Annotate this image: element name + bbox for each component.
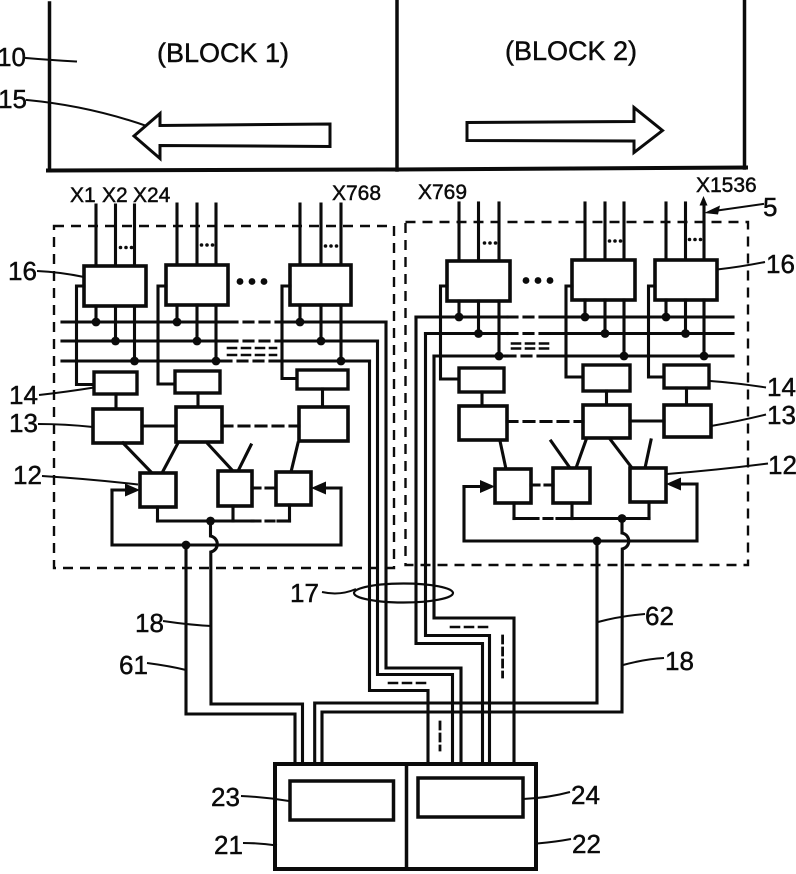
divider between driver 21 and 22: [405, 764, 409, 869]
arrowhead into 12c: [311, 482, 326, 495]
shift register stage 12a (left): [140, 473, 176, 507]
wire 18 from right carry line down (with hop): [322, 519, 629, 765]
label 16 right leader: [717, 262, 765, 270]
shift register stage 12f (right): [630, 468, 666, 502]
carry line under 12 row (right): [514, 517, 530, 520]
level shifter block 13e (right): [583, 405, 630, 438]
dashed link 13b-13c: [222, 424, 299, 427]
svg-text:X1: X1: [70, 184, 96, 207]
input wires into left driver U16c (X768): [298, 204, 301, 265]
input wires into right driver U16e: [583, 203, 586, 260]
shift register stage 12c (left): [276, 472, 311, 505]
feedback loop (left half): [112, 488, 341, 545]
bus bundle wire left-2: [378, 341, 453, 764]
sampling latch block 16 (right, second): [572, 260, 635, 300]
display panel 10 outline (left edge): [48, 3, 52, 170]
ellipsis dots on inputs of U16c: [324, 244, 339, 248]
dashed block boundary 5 (left half): [54, 226, 394, 568]
connector block 23 inside 21: [290, 781, 394, 820]
bus bundle wire right-3: [434, 356, 514, 764]
wire 61 from left loop down: [186, 545, 295, 764]
stub 14b-13b: [196, 393, 199, 407]
label 12 right leader: [667, 464, 768, 475]
display panel bottom edge: [48, 168, 746, 171]
svg-text:14: 14: [767, 372, 796, 402]
stub 14a-13a: [114, 394, 117, 409]
wire 18 from left carry line down (with hop): [211, 521, 303, 764]
shift register stage 12b (left): [218, 471, 252, 506]
wire into 12f with arrow: [680, 482, 697, 485]
bus line 3 (left half): [62, 359, 222, 362]
svg-text:12: 12: [13, 460, 42, 490]
svg-text:61: 61: [119, 650, 148, 680]
svg-text:24: 24: [571, 780, 600, 810]
bus line 1 (right half): [416, 315, 508, 318]
bus junction dots (left half): [92, 318, 346, 366]
bottom pins of 12d,12e,12f: [512, 503, 515, 519]
input wires X769.. into right driver U16d: [457, 203, 460, 261]
shift register stage 12d (right): [495, 469, 531, 503]
sampling latch block 16 (right, third): [655, 260, 717, 300]
bus line 2 (left half): [62, 339, 228, 342]
svg-text:X24: X24: [133, 184, 171, 207]
extra bus dashes (left half): [228, 347, 276, 350]
junction dot on carry line (left): [206, 517, 215, 526]
extra bus dashes (right half): [512, 342, 554, 345]
level shifter block 13a (left): [93, 409, 142, 443]
bus bundle wire right-1: [416, 317, 483, 764]
latch block 14b (left): [175, 371, 220, 393]
junction dot on loop line (left): [182, 541, 191, 550]
svg-text:22: 22: [572, 829, 601, 859]
ellipsis dots on inputs of U16f: [688, 238, 703, 242]
input wires into right driver U16f (X1536): [664, 203, 667, 260]
svg-text:10: 10: [0, 42, 26, 72]
wire into 12c with arrow: [325, 486, 341, 489]
data driver box 21: [275, 764, 536, 869]
bottom pins of 12a,12b,12c: [156, 507, 159, 521]
sampling latch block 16 (right, first): [447, 261, 510, 301]
label 24 leader: [523, 792, 570, 799]
label 61 leader: [147, 663, 186, 670]
label 14 left leader: [39, 388, 94, 396]
latch block 14f (right): [664, 365, 709, 388]
side wire from U16d to latch 14d: [441, 286, 460, 379]
connector block 24 inside 22: [418, 778, 523, 817]
ellipsis dots on inputs of U16d: [483, 241, 498, 245]
ellipsis dots on inputs of U16e: [608, 239, 623, 243]
label 22 leader: [537, 839, 571, 844]
svg-text:X1536: X1536: [696, 174, 757, 197]
label 13 right leader: [711, 415, 766, 427]
group separator dots between left 16 blocks: [237, 278, 268, 285]
input wires into left driver U16b: [175, 204, 178, 265]
bus bundle wire left-3: [370, 361, 429, 764]
input wires X1,X2,X24 into left driver U16a: [94, 205, 97, 266]
side wire from U16b to latch 14b: [158, 286, 175, 384]
label 17 leader: [322, 589, 356, 593]
stub 14d-13d: [480, 392, 483, 406]
latch block 14e (right): [583, 365, 630, 391]
svg-text:17: 17: [290, 578, 319, 608]
wire 62 from right loop down: [315, 541, 597, 764]
slant wires 13 to 12 (right half): [500, 441, 506, 469]
bus line 3 (right half): [434, 354, 506, 357]
label 13 left leader: [38, 424, 93, 427]
cable tie ellipse 17: [354, 584, 453, 603]
group separator dots between right 16 blocks: [523, 277, 554, 284]
dashed continuation marks in bundle channel: [389, 682, 428, 685]
shift register stage 12e (right): [553, 468, 590, 503]
leader for label 5: [714, 204, 763, 211]
slant wires 13 to 12 (left half): [123, 443, 152, 473]
arrowhead into 12d: [480, 480, 495, 493]
svg-text:(BLOCK 2): (BLOCK 2): [505, 36, 637, 66]
level shifter block 13c (left): [299, 407, 348, 441]
scan-direction arrow in BLOCK 1 (pointing left): [134, 114, 330, 159]
label 23 leader: [241, 796, 289, 801]
junction dot on carry line (right): [618, 514, 627, 523]
svg-text:16: 16: [766, 249, 795, 279]
svg-text:13: 13: [9, 408, 38, 438]
ellipsis dots on inputs of U16b: [200, 243, 215, 247]
svg-text:15: 15: [0, 84, 27, 114]
svg-text:14: 14: [9, 380, 38, 410]
bus bundle wire left-1: [386, 322, 461, 764]
label 14 right leader: [710, 381, 766, 388]
side wire from U16f to latch 14f: [649, 286, 665, 377]
label 15 leader: [27, 100, 148, 127]
feedback loop (right half): [464, 484, 697, 541]
svg-text:23: 23: [211, 782, 240, 812]
stub 14f-13f: [685, 388, 688, 405]
junction dot on loop line (right): [593, 537, 602, 546]
arrowhead into 12f: [666, 478, 681, 491]
svg-text:5: 5: [763, 192, 777, 222]
label 21 leader: [243, 843, 277, 846]
stub 14c-13c: [321, 389, 324, 407]
bus junction dots (right half): [455, 313, 709, 361]
side wire from U16a to latch 14a: [77, 286, 95, 385]
svg-text:18: 18: [135, 608, 164, 638]
ellipsis dots on inputs of U16a: [119, 246, 134, 250]
display panel divider between BLOCK 1 and BLOCK 2: [395, 0, 399, 170]
svg-text:X768: X768: [332, 182, 381, 205]
sampling latch block 16 (left, second): [166, 265, 228, 305]
sampling latch block 16 (left, first): [84, 266, 146, 306]
svg-text:16: 16: [8, 256, 37, 286]
arrowhead into 12a: [125, 484, 140, 497]
display panel right edge: [743, 0, 747, 168]
label 16 left leader: [37, 271, 84, 277]
small up arrow on X1536 input line: [700, 196, 708, 206]
svg-text:62: 62: [645, 601, 674, 631]
svg-text:21: 21: [214, 830, 243, 860]
bus bundle wire right-2: [426, 334, 490, 765]
dashed link 12a-12b: [252, 486, 276, 489]
svg-text:12: 12: [768, 450, 796, 480]
latch block 14c (left): [297, 370, 348, 389]
scan-direction arrow in BLOCK 2 (pointing right): [467, 108, 663, 153]
bus line 1 (left half): [62, 320, 228, 323]
level shifter block 13d (right): [459, 406, 507, 440]
carry line under 12 row (left): [158, 519, 253, 522]
dashed link 13d-13e: [507, 420, 583, 423]
link 13e-13f: [630, 419, 664, 422]
link 13a-13b: [142, 424, 176, 427]
wire into 12a with arrow: [112, 488, 127, 491]
latch block 14a (left): [94, 372, 137, 394]
svg-text:13: 13: [767, 400, 796, 430]
side wire from U16c to latch 14c: [282, 286, 297, 379]
label 10 leader: [26, 58, 76, 62]
dashed link 12d-12e: [531, 483, 553, 486]
label 12 left leader: [42, 476, 138, 485]
dashed block boundary (right half): [406, 222, 749, 565]
latch block 14d (right): [459, 368, 504, 392]
output pins of left 16 blocks to bus lines: [94, 306, 97, 322]
svg-text:X769: X769: [418, 181, 467, 204]
svg-text:(BLOCK 1): (BLOCK 1): [157, 38, 289, 68]
sampling latch block 16 (left, third): [290, 265, 351, 305]
output pins of right 16 blocks to bus lines: [457, 301, 460, 317]
svg-text:18: 18: [665, 646, 694, 676]
label 18 right leader: [623, 658, 664, 665]
label 18 left leader: [163, 621, 212, 626]
side wire from U16e to latch 14e: [566, 286, 583, 377]
level shifter block 13f (right): [664, 405, 711, 437]
label 62 leader: [598, 614, 645, 622]
level shifter block 13b (left): [176, 407, 222, 442]
stub 14e-13e: [605, 391, 608, 405]
wire into 12d with arrow: [464, 485, 482, 488]
bus line 2 (right half): [426, 332, 509, 335]
